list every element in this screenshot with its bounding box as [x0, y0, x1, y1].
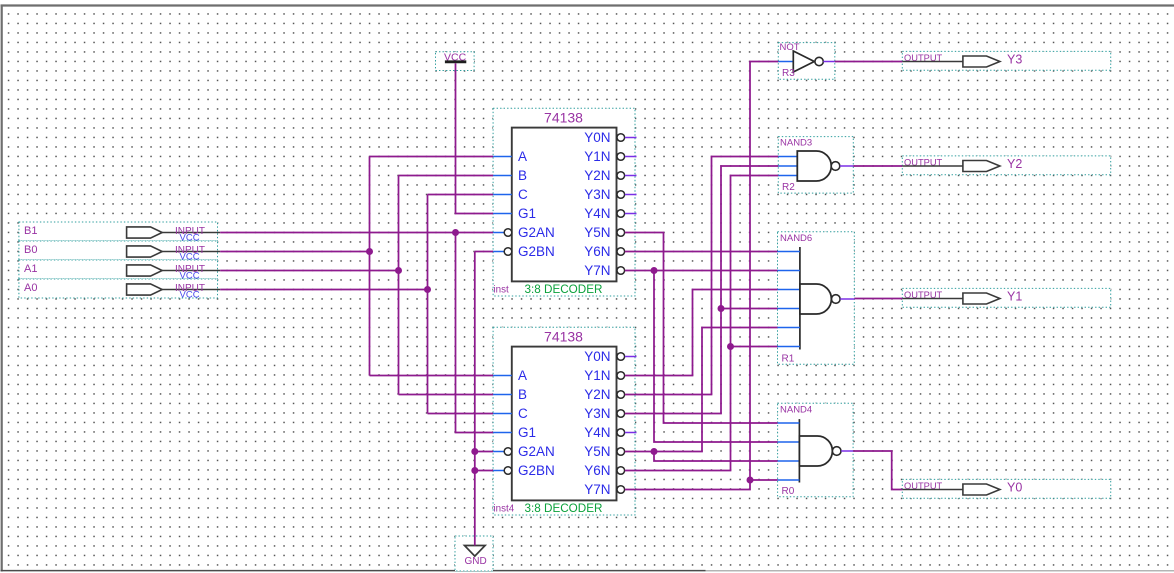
- wire R0 output to Y0: [853, 451, 902, 490]
- wire GND to U2 G2AN: [475, 451, 493, 453]
- wire B1 to U1 G2AN: [220, 232, 493, 234]
- wire B0 to U1 A / U2 A vertical: [369, 157, 371, 376]
- svg-text:NOT: NOT: [780, 42, 800, 53]
- svg-text:Y5N: Y5N: [584, 225, 610, 240]
- output pin Y2: [902, 156, 1110, 175]
- svg-text:A1: A1: [24, 263, 37, 275]
- svg-text:3:8 DECODER: 3:8 DECODER: [525, 502, 603, 515]
- svg-text:Y7N: Y7N: [584, 482, 610, 497]
- junction B1 branch: [452, 229, 459, 236]
- svg-text:G2AN: G2AN: [518, 444, 555, 459]
- 74138 decoder inst: [493, 108, 636, 296]
- svg-text:R1: R1: [782, 353, 795, 364]
- svg-text:Y3N: Y3N: [584, 187, 610, 202]
- svg-text:B1: B1: [24, 225, 37, 237]
- svg-text:A: A: [518, 368, 527, 383]
- wire U1 Y7N to R0 in2: [654, 271, 778, 443]
- wire U1 Y5N to R0 in1: [625, 233, 778, 424]
- wire A1 to U2 B: [399, 394, 494, 396]
- NAND4 gate R0: [778, 403, 854, 497]
- wire R2 output to Y2: [853, 165, 902, 167]
- svg-text:74138: 74138: [544, 109, 583, 125]
- NAND6 gate R1: [778, 232, 855, 364]
- wire A0 to U1 C / U2 C vertical: [427, 195, 429, 414]
- wire B0 to U2 A: [370, 375, 494, 377]
- svg-text:Y3N: Y3N: [584, 406, 610, 421]
- svg-text:VCC: VCC: [180, 290, 200, 301]
- wire U1 Y6N to R1 in1: [625, 251, 778, 253]
- svg-text:Y7N: Y7N: [584, 263, 610, 278]
- wire R3 output to Y3: [835, 61, 903, 63]
- wire U2 Y3N to R2 in2: [625, 166, 779, 414]
- wire A0 to U2 C: [428, 413, 494, 415]
- svg-text:Y6N: Y6N: [584, 463, 610, 478]
- wire U2 Y1N to R1 in3: [625, 290, 778, 376]
- 74138 decoder inst4: [493, 327, 636, 515]
- svg-text:Y4N: Y4N: [584, 425, 610, 440]
- svg-text:Y1N: Y1N: [584, 368, 610, 383]
- svg-text:Y5N: Y5N: [584, 444, 610, 459]
- wire B1 to U2 G1 vertical: [456, 233, 494, 433]
- output pin Y0: [902, 479, 1110, 498]
- svg-text:inst: inst: [494, 285, 510, 296]
- svg-text:R2: R2: [782, 182, 795, 193]
- wire GND to U1 G2BN: [475, 251, 493, 253]
- power symbol VCC: [436, 52, 475, 71]
- junction A0 branch: [424, 286, 431, 293]
- svg-text:Y1: Y1: [1007, 290, 1022, 304]
- wire A0 horizontal: [220, 289, 427, 291]
- wire A0 to U1 C: [428, 194, 494, 196]
- input pin A0: [19, 279, 220, 301]
- svg-text:G2AN: G2AN: [518, 225, 555, 240]
- wire U2 Y7N to R0 in4: [750, 479, 778, 481]
- wire B0 to U1 A: [370, 156, 494, 158]
- NAND3 gate R2: [778, 137, 853, 194]
- junction U2 Y7N branch: [747, 477, 754, 484]
- svg-text:R3: R3: [782, 68, 795, 79]
- svg-text:Y3: Y3: [1007, 53, 1022, 67]
- svg-text:Y1N: Y1N: [584, 149, 610, 164]
- input pin A1: [19, 260, 220, 282]
- wire R1 output to Y1: [854, 298, 902, 300]
- junction U2 Y6N branch: [727, 343, 734, 350]
- junction A1 branch: [395, 267, 402, 274]
- svg-text:inst4: inst4: [494, 504, 515, 515]
- svg-text:3:8 DECODER: 3:8 DECODER: [525, 283, 603, 296]
- svg-text:B: B: [518, 168, 527, 183]
- svg-text:G1: G1: [518, 206, 536, 221]
- junction GND / U2 G2BN: [471, 467, 478, 474]
- svg-text:NAND6: NAND6: [780, 233, 812, 244]
- svg-text:Y4N: Y4N: [584, 206, 610, 221]
- svg-text:Y0N: Y0N: [584, 130, 610, 145]
- svg-text:G1: G1: [518, 425, 536, 440]
- output pin Y1: [902, 288, 1110, 307]
- svg-text:Y2N: Y2N: [584, 168, 610, 183]
- wire U2 Y7N to R3 input: [625, 62, 779, 490]
- svg-text:A0: A0: [24, 282, 37, 294]
- wire U2 Y5N to R1 in5: [625, 328, 778, 452]
- svg-text:G2BN: G2BN: [518, 244, 555, 259]
- svg-text:B: B: [518, 387, 527, 402]
- wire U1 Y7N to R1 in2: [625, 270, 778, 272]
- junction B0 branch: [366, 248, 373, 255]
- svg-text:Y6N: Y6N: [584, 244, 610, 259]
- svg-text:Y2: Y2: [1007, 157, 1022, 171]
- svg-text:A: A: [518, 149, 527, 164]
- junction U1 Y7N branch: [651, 267, 658, 274]
- ground symbol GND: [455, 536, 493, 571]
- NOT gate R3: [778, 42, 835, 79]
- svg-text:Y0N: Y0N: [584, 349, 610, 364]
- wire U2 Y6N to R2 in3: [625, 176, 779, 471]
- svg-text:NAND3: NAND3: [780, 137, 812, 148]
- svg-text:B0: B0: [24, 244, 37, 256]
- junction U2 Y5N branch: [651, 448, 658, 455]
- input pin B1: [19, 222, 220, 244]
- svg-text:Y0: Y0: [1007, 481, 1022, 495]
- svg-text:R0: R0: [782, 486, 795, 497]
- wire U2 Y5N to R0 in3: [654, 452, 778, 462]
- wire A1 horizontal: [220, 270, 398, 272]
- junction U2 Y3N branch: [718, 305, 725, 312]
- wire VCC to U1 G1: [456, 63, 494, 213]
- svg-text:NAND4: NAND4: [780, 404, 812, 415]
- svg-text:74138: 74138: [544, 328, 583, 344]
- svg-text:G2BN: G2BN: [518, 463, 555, 478]
- svg-text:Y2N: Y2N: [584, 387, 610, 402]
- junction GND / U2 G2AN: [471, 448, 478, 455]
- output pin Y3: [902, 51, 1110, 70]
- wire U2 Y2N to R2 in1: [625, 157, 779, 395]
- svg-text:GND: GND: [465, 556, 487, 567]
- wire U2 Y3N to R1 in4: [721, 308, 778, 310]
- input pin B0: [19, 241, 220, 263]
- wire B0 horizontal: [220, 251, 369, 253]
- svg-text:C: C: [518, 406, 528, 421]
- wire GND to U2 G2BN: [475, 470, 493, 472]
- wire GND vertical: [474, 252, 476, 546]
- wire A1 to U1 B: [399, 175, 494, 177]
- wire A1 to U1 B / U2 B vertical: [398, 176, 400, 395]
- wire U2 Y6N to R1 in6: [731, 346, 778, 348]
- svg-text:C: C: [518, 187, 528, 202]
